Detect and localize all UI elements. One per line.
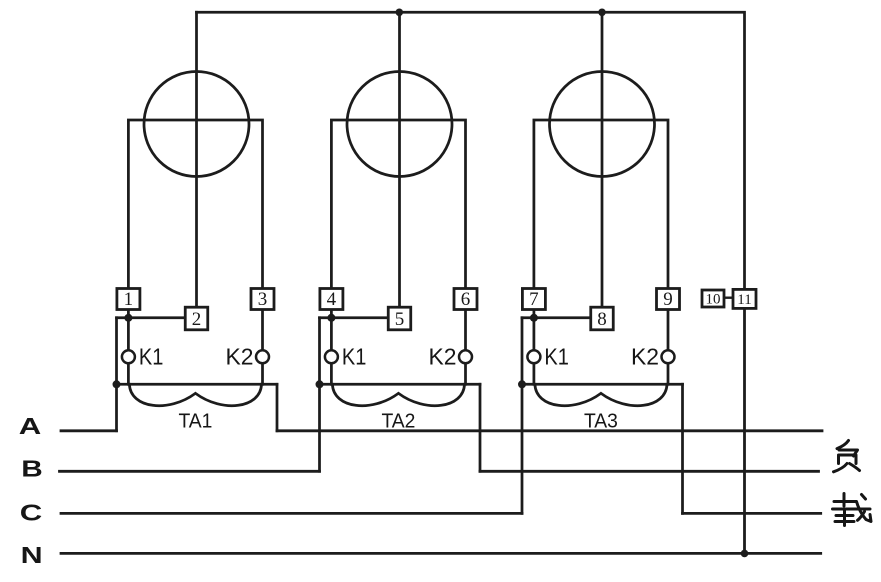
terminal 4 bbox=[320, 289, 343, 310]
junction: neutral riser on N bbox=[741, 550, 749, 558]
wire: phase riser x2 (phase line up to tap corner) bbox=[318, 318, 321, 472]
terminal 6 bbox=[454, 289, 477, 310]
wire: terminal 11 down to neutral bbox=[743, 308, 746, 553]
label 载 (load, lower char) bbox=[833, 494, 872, 526]
junction: phase at TA2 primary bbox=[316, 380, 324, 388]
wire: phase A load segment bbox=[277, 429, 822, 432]
wire: voltage tap link (terminal 7 / 8 to phase riser) bbox=[522, 316, 591, 319]
junction: tap at terminal 7 column bbox=[530, 314, 538, 322]
wire: phase C source segment bbox=[61, 512, 522, 515]
svg-text:10: 10 bbox=[706, 292, 721, 308]
terminal 8 bbox=[591, 307, 614, 330]
wire: terminal 9 to K2 bbox=[667, 310, 670, 351]
svg-text:K1: K1 bbox=[139, 343, 164, 369]
svg-text:A: A bbox=[19, 413, 42, 439]
wire: TA3 primary conductor bbox=[522, 383, 683, 386]
wire: terminal 1 to K1 bbox=[127, 310, 130, 351]
wire: terminal 7 to K1 bbox=[533, 310, 536, 351]
terminal 5 bbox=[388, 307, 411, 330]
label 负 (load, upper char) bbox=[834, 441, 860, 472]
wire: meter 3 vertical stem (bus to terminal 8) bbox=[601, 12, 604, 307]
wire: meter 2 horizontal chord to terminals 4 and 6 bbox=[331, 120, 465, 289]
terminal 3 bbox=[251, 289, 274, 310]
svg-text:3: 3 bbox=[258, 289, 268, 310]
wire: TA2 primary down to load-side phase line bbox=[479, 384, 482, 471]
wire: K2 to TA2 secondary bbox=[464, 363, 467, 384]
terminal 10 bbox=[702, 290, 724, 308]
svg-text:K1: K1 bbox=[544, 343, 569, 369]
wire: meter 1 horizontal chord to terminals 1 and 3 bbox=[128, 120, 262, 289]
wire: K1 to TA1 secondary bbox=[127, 363, 130, 384]
svg-text:8: 8 bbox=[597, 309, 607, 330]
terminal K2 of TA3 bbox=[662, 350, 675, 363]
junction: bus / meter 3 stem bbox=[598, 9, 606, 17]
svg-text:11: 11 bbox=[737, 292, 751, 308]
svg-text:9: 9 bbox=[663, 289, 673, 310]
svg-text:1: 1 bbox=[124, 289, 134, 310]
terminal K1 of TA1 bbox=[122, 350, 135, 363]
wire: voltage tap link (terminal 4 / 5 to phase riser) bbox=[320, 316, 389, 319]
svg-text:B: B bbox=[21, 455, 43, 481]
terminal 9 bbox=[657, 289, 680, 310]
svg-text:K2: K2 bbox=[631, 343, 659, 369]
wire: phase B load segment bbox=[480, 470, 819, 473]
wire: voltage tap link (terminal 1 / 2 to phase riser) bbox=[117, 316, 186, 319]
svg-text:4: 4 bbox=[327, 289, 337, 310]
svg-text:TA2: TA2 bbox=[381, 411, 415, 433]
terminal 2 bbox=[185, 307, 208, 330]
wire: K1 to TA2 secondary bbox=[330, 363, 333, 384]
wire: phase A source segment bbox=[61, 429, 117, 432]
terminal K1 of TA3 bbox=[527, 350, 540, 363]
svg-text:TA3: TA3 bbox=[584, 411, 618, 433]
CT TA2 secondary winding bbox=[332, 384, 464, 405]
wire: meter 2 vertical stem (bus to terminal 5) bbox=[398, 12, 401, 307]
junction: phase at TA1 primary bbox=[113, 380, 121, 388]
meter element 2 current/voltage coil bbox=[347, 72, 452, 177]
wire: phase riser x3 (phase line up to tap corner) bbox=[521, 318, 524, 514]
wire: TA1 primary conductor bbox=[117, 383, 278, 386]
meter element 1 current/voltage coil bbox=[144, 72, 249, 177]
wire: meter 3 horizontal chord to terminals 7 and 9 bbox=[534, 120, 668, 289]
wire: link terminal 10 to terminal 11 bbox=[724, 297, 733, 299]
junction: tap at terminal 4 column bbox=[327, 314, 335, 322]
wire: meter 1 vertical stem (bus to terminal 2) bbox=[195, 12, 198, 307]
wire: K2 to TA1 secondary bbox=[261, 363, 264, 384]
svg-text:C: C bbox=[20, 499, 43, 525]
terminal 11 bbox=[733, 289, 756, 308]
wire: terminal 6 to K2 bbox=[464, 310, 467, 351]
svg-text:K1: K1 bbox=[342, 343, 367, 369]
junction: bus / meter 2 stem bbox=[396, 9, 404, 17]
wire: K1 to TA3 secondary bbox=[533, 363, 536, 384]
svg-text:N: N bbox=[21, 542, 43, 568]
svg-text:K2: K2 bbox=[226, 343, 254, 369]
wire: terminal 4 to K1 bbox=[330, 310, 333, 351]
CT TA3 secondary winding bbox=[535, 384, 667, 405]
junction: tap at terminal 1 column bbox=[124, 314, 132, 322]
wire: TA1 primary down to load-side phase line bbox=[276, 384, 279, 431]
wire: terminal 3 to K2 bbox=[261, 310, 264, 351]
wire: phase B source segment bbox=[60, 470, 320, 473]
terminal 7 bbox=[522, 289, 545, 310]
CT TA1 secondary winding bbox=[129, 384, 261, 405]
svg-text:5: 5 bbox=[395, 309, 405, 330]
wire: top voltage bus with drop to terminal 11 bbox=[197, 12, 745, 289]
terminal 1 bbox=[117, 289, 140, 310]
wire: neutral N bbox=[61, 552, 821, 555]
wire: phase riser x1 (phase line up to tap corner) bbox=[115, 318, 118, 431]
terminal K2 of TA1 bbox=[256, 350, 269, 363]
svg-text:TA1: TA1 bbox=[178, 411, 212, 433]
svg-text:2: 2 bbox=[192, 309, 202, 330]
terminal K1 of TA2 bbox=[325, 350, 338, 363]
svg-text:7: 7 bbox=[529, 289, 539, 310]
wire: TA3 primary down to load-side phase line bbox=[681, 384, 684, 513]
wire: TA2 primary conductor bbox=[320, 383, 481, 386]
meter element 3 current/voltage coil bbox=[550, 72, 655, 177]
svg-text:6: 6 bbox=[461, 289, 471, 310]
wire: phase C load segment bbox=[683, 512, 821, 515]
wire: K2 to TA3 secondary bbox=[667, 363, 670, 384]
junction: phase at TA3 primary bbox=[518, 380, 526, 388]
terminal K2 of TA2 bbox=[459, 350, 472, 363]
svg-text:K2: K2 bbox=[429, 343, 457, 369]
